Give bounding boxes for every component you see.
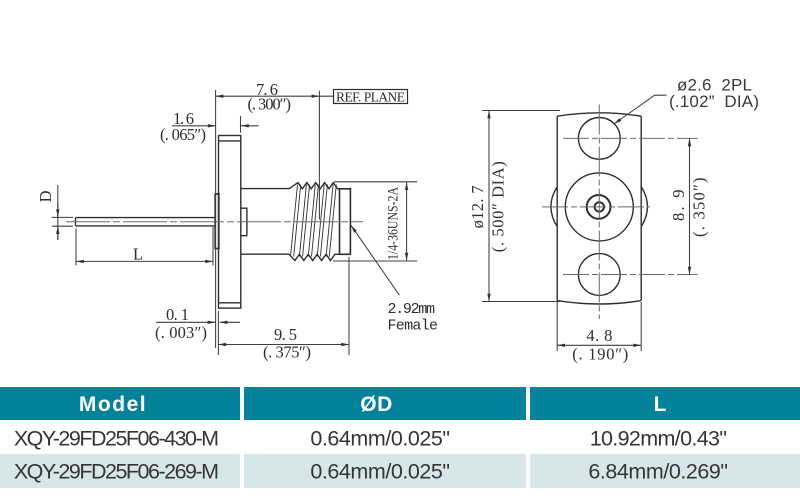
svg-text:(. 375″): (. 375″) [263, 342, 311, 361]
svg-text:0. 1: 0. 1 [166, 305, 189, 324]
svg-text:D: D [36, 190, 55, 202]
svg-text:Female: Female [388, 317, 439, 334]
svg-text:(. 190″): (. 190″) [572, 344, 628, 363]
svg-text:(.102” DIA): (.102” DIA) [669, 92, 759, 111]
svg-text:REF. PLANE: REF. PLANE [336, 89, 405, 104]
svg-text:ø12. 7: ø12. 7 [468, 185, 487, 228]
svg-text:(. 350″): (. 350″) [690, 177, 709, 237]
svg-text:(. 003″): (. 003″) [155, 323, 207, 342]
svg-text:2.92mm: 2.92mm [388, 301, 436, 318]
svg-text:L: L [133, 244, 143, 263]
svg-text:(. 500″ DIA): (. 500″ DIA) [489, 161, 508, 252]
svg-text:8. 9: 8. 9 [669, 189, 688, 221]
svg-text:(. 065″): (. 065″) [160, 125, 206, 144]
svg-text:4. 8: 4. 8 [586, 326, 612, 345]
svg-text:9. 5: 9. 5 [274, 325, 297, 344]
svg-text:1/4-36UNS-2A: 1/4-36UNS-2A [384, 187, 401, 260]
svg-text:(. 300″): (. 300″) [247, 95, 291, 114]
